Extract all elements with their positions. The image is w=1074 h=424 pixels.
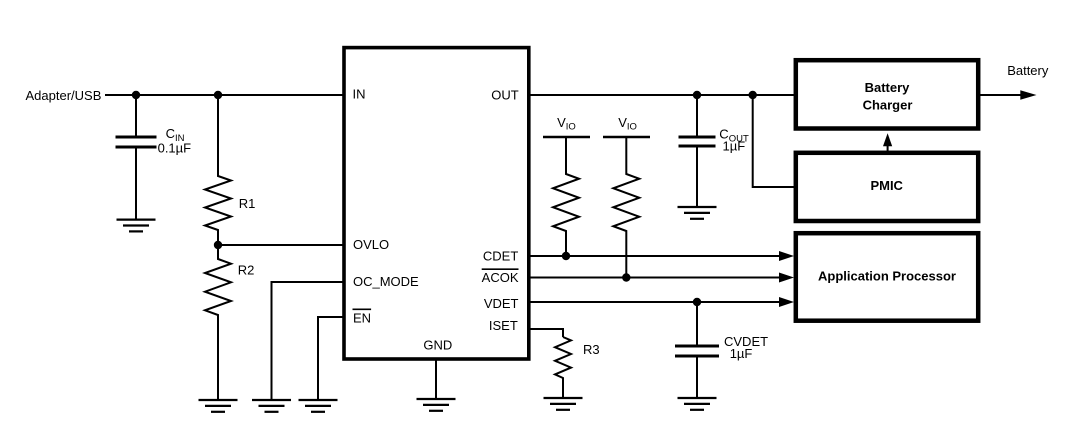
resistor pull-up 1 (VIO to CDET) [553,137,579,256]
svg-text:OVLO: OVLO [353,237,389,252]
ground under R2 [199,400,238,412]
wire IN (Adapter/USB to IC pin IN) [105,94,344,96]
V_IO rail 1 bar [543,136,590,139]
capacitor CVDET [675,302,719,398]
box PMIC [796,153,978,221]
wire ISET to R3 [529,329,563,337]
op IC box U1 [344,48,529,359]
box Application Processor [796,233,978,321]
svg-text:Battery: Battery [1007,63,1049,78]
ground on OC_MODE [252,400,291,412]
svg-text:R1: R1 [239,196,256,211]
svg-text:1µF: 1µF [730,346,753,361]
wire OUT (IC to Battery Charger) [529,94,796,96]
svg-text:PMIC: PMIC [870,178,903,193]
svg-text:VIO: VIO [557,115,576,133]
svg-text:EN: EN [353,310,371,325]
svg-text:1µF: 1µF [723,138,746,153]
svg-text:OC_MODE: OC_MODE [353,274,419,289]
wire IC GND pin to ground [435,360,437,400]
capacitor C_OUT [679,95,716,207]
ground under C_IN [117,220,156,232]
svg-text:Adapter/USB: Adapter/USB [26,88,102,103]
arrow PMIC to Battery Charger [887,145,889,153]
box Battery Charger [796,60,978,128]
svg-text:Application Processor: Application Processor [818,268,956,283]
svg-text:OUT: OUT [491,87,519,102]
junction dot at PMIC feed [749,91,757,99]
resistor pull-up 2 (VIO to ACOK) [613,137,639,278]
arrowhead CDET [779,251,794,261]
svg-text:R2: R2 [238,262,255,277]
ground under IC [417,399,456,411]
arrowhead ACOK [779,273,794,283]
svg-text:IN: IN [353,87,366,102]
arrowhead Battery output [1020,90,1036,99]
wire CDET to Application Processor [529,255,780,257]
ground under R3 [544,398,583,410]
junction dot at OVLO node [214,241,222,249]
resistor R2 [205,245,231,400]
junction dot at COUT [693,91,701,99]
capacitor C_IN [116,95,157,220]
junction dot at R1 top [214,91,222,99]
wire Battery output [978,94,1022,96]
wire EN to ground [318,317,344,400]
svg-text:0.1µF: 0.1µF [158,140,192,155]
svg-text:VIO: VIO [618,115,637,133]
ground on EN [299,400,338,412]
junction dot pull-up 2 on ACOK [622,273,630,281]
svg-text:Charger: Charger [863,98,913,113]
svg-text:Battery: Battery [865,80,911,95]
junction dot at CIN top [132,91,140,99]
svg-text:ISET: ISET [489,318,518,333]
svg-text:ACOK: ACOK [482,270,519,285]
arrowhead VDET [779,297,794,307]
wire OUT node to PMIC [753,95,796,187]
svg-text:GND: GND [423,337,452,352]
junction dot at CVDET [693,298,701,306]
wire OVLO (node to IC pin OVLO) [218,244,344,246]
wire ACOK to Application Processor [529,277,780,279]
wire OC_MODE to ground [272,282,345,400]
resistor R3 [555,337,571,398]
ground under CVDET [678,398,717,410]
svg-text:R3: R3 [583,342,600,357]
junction dot pull-up 1 on CDET [562,252,570,260]
wire VDET to Application Processor [529,301,780,303]
V_IO rail 2 bar [603,136,650,139]
svg-text:CDET: CDET [483,249,518,264]
resistor R1 [205,95,231,245]
svg-text:VDET: VDET [484,296,519,311]
ground under C_OUT [678,207,717,219]
